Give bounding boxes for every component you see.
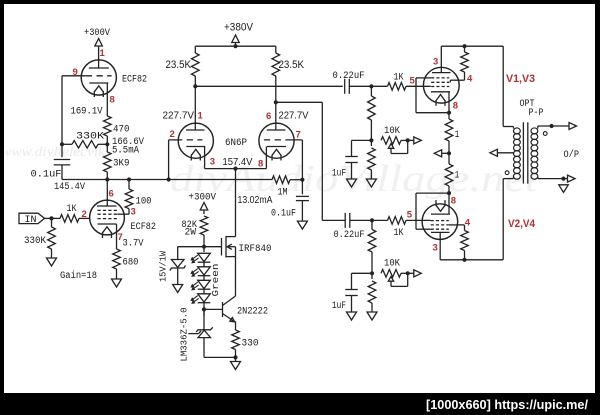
phase dot secondary	[543, 132, 547, 136]
node grid return	[300, 178, 304, 182]
wire 330K left	[60, 142, 72, 146]
label 1K (lower grid)	[394, 228, 404, 239]
capacitor 0.1uF (bias)	[296, 180, 309, 201]
svg-text:330K: 330K	[24, 236, 46, 247]
tube V1V3 grid g2	[431, 81, 449, 83]
resistor 23.5K right	[272, 53, 280, 76]
LED D2 green	[191, 267, 210, 277]
tube U1b plate	[97, 205, 117, 207]
wire base node to Q2 base	[204, 308, 223, 310]
svg-text:1K: 1K	[67, 204, 77, 215]
resistor lower bias lower	[368, 281, 376, 303]
wire g2 to screen resistor (lower)	[449, 225, 465, 231]
tube V2V4 grid g2	[431, 224, 449, 226]
power symbol +300V (CCS)	[200, 203, 208, 215]
label Gain=18	[60, 270, 97, 282]
ground (lower bias)	[367, 303, 377, 320]
pin 1 label (ECF82 triode plate)	[100, 48, 106, 59]
wire gate node left	[178, 246, 204, 248]
svg-text:3: 3	[131, 207, 136, 218]
wire cap to rail	[61, 165, 63, 180]
border frame	[0, 0, 600, 4]
wire cathodes to CCS drain	[235, 169, 237, 237]
svg-text:15V/1W: 15V/1W	[157, 251, 168, 282]
label 1M	[278, 188, 288, 199]
transformer T1 core	[523, 122, 527, 183]
svg-text:[1000x660] https://upic.me/: [1000x660] https://upic.me/	[426, 397, 588, 412]
label 3.7V	[123, 239, 144, 250]
svg-text:1K: 1K	[394, 228, 404, 239]
wire cathode pin3	[205, 147, 236, 169]
node left plate	[193, 84, 197, 88]
node upper cathode	[447, 111, 451, 115]
wire node to 1ohm upper	[448, 113, 450, 119]
node lower grid divider	[370, 218, 374, 222]
resistor 330	[232, 330, 240, 350]
svg-text:Gain=18: Gain=18	[60, 270, 97, 282]
pin 6 label	[109, 189, 114, 200]
wire lower divider to node2	[371, 252, 373, 279]
pin 8 label (lower out)	[451, 196, 456, 207]
svg-text:V2,V4: V2,V4	[508, 218, 536, 230]
node lower cathode	[447, 191, 451, 195]
wire 1ohm to mid	[448, 141, 450, 164]
label IRF840	[239, 244, 272, 255]
tube V-drv-a plate	[186, 86, 205, 130]
label 470	[113, 125, 130, 136]
tube V1V3 cathode	[431, 92, 450, 106]
capacitor 1uF upper	[345, 157, 358, 163]
wire 23.5K right top	[275, 46, 277, 53]
wire +380V rail	[195, 45, 275, 47]
svg-text:2N2222: 2N2222	[237, 307, 268, 318]
phase dot primary	[505, 171, 509, 175]
wire LED3-LED4	[203, 289, 205, 294]
wire 330K right	[98, 143, 107, 145]
transistor Q2 2N2222	[223, 296, 236, 330]
wire lower bias left	[352, 273, 373, 289]
net arrow upper (balance)	[414, 137, 422, 144]
potentiometer 10K upper	[381, 137, 401, 145]
pin 7 label (6N6P)	[296, 130, 301, 141]
pin 3 label (lower out plate)	[433, 243, 438, 254]
svg-text:1: 1	[455, 130, 460, 141]
svg-text:0.1uF: 0.1uF	[31, 170, 62, 181]
label 1uF (lower)	[332, 301, 346, 312]
ground (1uF upper)	[347, 163, 357, 188]
resistor 1 ohm lower	[445, 164, 453, 186]
wire grid pin9 to left rail	[62, 76, 86, 157]
wire mid to arrow	[442, 152, 449, 154]
svg-text:8: 8	[110, 95, 115, 106]
tube U1a grid	[86, 75, 112, 77]
wire pot to arrow lower	[401, 272, 414, 274]
resistor 100 screen	[125, 189, 133, 209]
svg-text:5: 5	[407, 210, 413, 221]
wire g3 tie to cathode (lower)	[416, 193, 449, 229]
svg-text:330K: 330K	[76, 132, 104, 143]
tube V1V3 grid g3	[431, 77, 449, 79]
svg-text:3K9: 3K9	[113, 159, 130, 170]
resistor 1K upper grid	[388, 83, 407, 91]
svg-text:1: 1	[198, 111, 204, 122]
node cathode divider	[105, 142, 109, 146]
wire screen resistor to pin4	[450, 72, 464, 82]
label 330K (feedback)	[76, 132, 104, 143]
svg-text:3: 3	[433, 57, 438, 68]
label 5.5mA	[112, 146, 139, 157]
node common cathode	[233, 167, 237, 171]
pin 2 label (6N6P)	[170, 129, 175, 140]
watermark cursive diyaudioVillage.net	[170, 158, 540, 200]
tube U1b grid g1	[98, 218, 118, 220]
wire 82K to gate node	[203, 235, 205, 252]
label 6N6P	[225, 138, 247, 149]
label 10K (lower)	[384, 259, 400, 270]
svg-text:100: 100	[136, 197, 152, 208]
label 1K (grid stopper)	[67, 204, 77, 215]
svg-text:23.5K: 23.5K	[279, 59, 305, 71]
label P-P	[529, 108, 544, 119]
label 1K (upper grid)	[394, 73, 404, 84]
wire 23.5K left bottom	[194, 76, 196, 86]
svg-text:8: 8	[451, 196, 456, 207]
label 13.02mA	[238, 194, 273, 206]
wire OPT left bottom	[503, 179, 513, 260]
pin 8 label (upper out)	[453, 101, 458, 112]
wire secondary bottom	[538, 178, 568, 180]
wire 1M to node	[290, 179, 302, 181]
wire cap to grid node	[349, 85, 387, 87]
tube U1a ECF82 triode envelope	[81, 60, 116, 95]
tube U1b grid g2	[98, 213, 118, 215]
tube U1a plate	[89, 67, 109, 69]
node lower bias	[370, 271, 374, 275]
wire LED1-LED2	[203, 262, 205, 267]
pin 6 label (6N6P)	[266, 111, 271, 122]
resistor 1K lower grid	[388, 217, 407, 225]
resistor upper screen	[461, 52, 469, 72]
svg-text:3: 3	[210, 157, 215, 168]
resistor upper bias lower	[368, 148, 376, 170]
capacitor 1uF lower	[345, 290, 358, 296]
net arrow O/P+	[569, 123, 577, 130]
label V2,V4	[508, 218, 536, 230]
label 330	[242, 339, 259, 350]
svg-text:4: 4	[465, 218, 471, 229]
label 2N2222	[237, 307, 268, 318]
svg-text:227.7V: 227.7V	[163, 110, 195, 122]
node right plate	[274, 100, 278, 104]
label 166.6V	[112, 137, 144, 148]
tube V1V3 plate	[432, 46, 451, 72]
net arrow center tap	[490, 149, 498, 156]
wire cathode pin8	[236, 147, 267, 169]
svg-text:1: 1	[100, 48, 106, 59]
svg-text:3.7V: 3.7V	[123, 239, 144, 250]
tube U1b ECF82 pentode envelope	[90, 200, 125, 235]
LED D3 green	[191, 280, 210, 290]
connector IN	[19, 213, 45, 226]
resistor 330K feedback	[72, 141, 98, 149]
node upper bias	[369, 138, 373, 142]
wire g3 tie to cathode (upper)	[416, 78, 449, 113]
svg-text:IRF840: IRF840	[239, 244, 272, 255]
wire rail to 1M	[0, 0, 1, 1]
resistor lower screen	[461, 231, 469, 251]
svg-text:O/P: O/P	[564, 149, 580, 161]
wire plate node to coupling cap	[195, 85, 342, 87]
power +380V label	[224, 22, 254, 34]
resistor 330K input	[48, 227, 56, 249]
svg-text:169.1V: 169.1V	[71, 107, 103, 118]
svg-text:ECF82: ECF82	[122, 75, 147, 86]
svg-text:+300V: +300V	[189, 193, 217, 204]
wire 100 to rail	[127, 177, 131, 189]
net arrow O/P-	[568, 175, 576, 182]
svg-text:2: 2	[170, 129, 175, 140]
ground (upper bias)	[366, 170, 376, 187]
wire source down	[235, 257, 237, 296]
wire bias node left	[352, 140, 372, 156]
svg-text:330: 330	[242, 339, 259, 350]
pot wiper upper	[388, 140, 407, 153]
watermark www text	[1, 145, 109, 160]
wire OPT center tap	[497, 152, 513, 154]
pin 5 label (upper out)	[410, 76, 416, 87]
wire grid pin2 to rail	[167, 140, 177, 182]
label 3K9	[113, 159, 130, 170]
zener D5 15V/1W	[170, 247, 186, 271]
wire divider to node2	[370, 120, 372, 146]
wire secondary top	[538, 125, 569, 127]
tube V-drv-a grid	[176, 139, 202, 141]
svg-text:ECF82: ECF82	[131, 222, 157, 233]
node base	[202, 307, 206, 311]
svg-text:8: 8	[453, 101, 458, 112]
node ccs bottom	[233, 355, 237, 359]
pin 1 label (6N6P)	[198, 111, 204, 122]
label O/P	[564, 149, 580, 161]
svg-text:2: 2	[82, 209, 87, 220]
svg-text:1uF: 1uF	[332, 301, 346, 312]
svg-text:+380V: +380V	[224, 22, 254, 34]
svg-text:227.7V: 227.7V	[279, 110, 309, 122]
ground (1uF lower)	[347, 296, 357, 321]
power +300V label (CCS)	[189, 193, 217, 204]
wire 23.5K right bottom	[275, 76, 277, 102]
wire LED2-LED3	[203, 276, 205, 281]
label 1 (lower)	[455, 170, 460, 181]
pin 3 label (upper out plate)	[433, 57, 438, 68]
tube V-drv-b grid	[264, 139, 286, 141]
svg-text:2W: 2W	[185, 228, 197, 239]
resistor 1 ohm upper	[445, 119, 453, 141]
node secondary top	[550, 124, 554, 128]
svg-text:V1,V3: V1,V3	[506, 73, 535, 85]
svg-text:+300V: +300V	[84, 28, 110, 39]
label 145.4V	[54, 182, 85, 193]
wire lower node to divider	[371, 220, 373, 229]
mosfet Q1 IRF840	[222, 236, 236, 258]
wire plate line to OPT	[441, 45, 503, 47]
label ECF82 (U1a)	[122, 75, 147, 86]
label 157.4V	[223, 156, 253, 168]
wire LM336 to bottom rail	[204, 338, 236, 358]
pin 9 label	[73, 67, 78, 78]
tube V-drv-a 6N6P envelope	[178, 123, 213, 158]
svg-text:1: 1	[455, 170, 460, 181]
capacitor 0.1uF (input hp)	[54, 160, 71, 165]
wire g2 to screen resistor	[117, 209, 129, 215]
wire cathode pin8 (lower out)	[448, 193, 450, 214]
tube V2V4 cathode	[431, 200, 450, 214]
svg-text:0.22uF: 0.22uF	[334, 230, 365, 241]
pin 3 label (6N6P)	[210, 157, 215, 168]
wire 330 to bottom rail	[235, 350, 237, 362]
svg-text:LM336Z-5.0: LM336Z-5.0	[179, 307, 190, 361]
svg-text:www.diyltelecvik,: www.diyltelecvik,	[1, 145, 109, 160]
svg-text:470: 470	[113, 125, 130, 136]
label 0.1uF (bias)	[271, 209, 296, 220]
wire grid pin7 right	[286, 140, 302, 180]
tube V1V3 envelope	[423, 67, 459, 103]
svg-text:IN: IN	[25, 215, 37, 226]
LED D1 green	[191, 253, 210, 263]
svg-text:1M: 1M	[278, 188, 288, 199]
svg-text:P-P: P-P	[529, 108, 544, 119]
resistor 470	[104, 116, 112, 136]
resistor 1M	[272, 176, 290, 184]
ground (secondary)	[559, 185, 569, 193]
label Green	[210, 264, 221, 297]
resistor 3K9	[104, 152, 112, 172]
svg-text:1K: 1K	[394, 73, 404, 84]
tube V2V4 envelope	[422, 204, 458, 240]
wire LED4 to base node	[203, 303, 205, 316]
wire plate pin6 to rail	[105, 177, 109, 206]
wire lower cap right	[350, 219, 388, 221]
svg-text:7: 7	[296, 130, 301, 141]
node pot out lower	[406, 271, 410, 275]
svg-text:4: 4	[467, 74, 473, 85]
tube V-drv-b 6N6P envelope	[259, 123, 294, 158]
potentiometer 10K lower	[381, 270, 401, 278]
reference U3 LM336Z-5.0	[188, 309, 213, 337]
svg-text:10K: 10K	[384, 259, 400, 270]
label LM336Z-5.0	[179, 307, 190, 361]
svg-text:3: 3	[433, 243, 438, 254]
svg-text:10K: 10K	[384, 126, 400, 137]
label 82K	[182, 220, 198, 231]
pin 4 label (lower out)	[465, 218, 471, 229]
svg-text:13.02mA: 13.02mA	[238, 194, 273, 206]
LED D4 green	[191, 294, 210, 304]
ground (bias cap)	[297, 201, 307, 230]
svg-text:145.4V: 145.4V	[54, 182, 85, 193]
transformer T1 secondary winding	[531, 126, 538, 179]
svg-text:5.5mA: 5.5mA	[112, 146, 139, 157]
tube U1b grid g3	[98, 209, 118, 211]
wire IN to 1K	[45, 216, 61, 220]
wire 23.5K left top	[194, 46, 196, 53]
capacitor 0.22uF upper	[345, 79, 350, 94]
svg-text:23.5K: 23.5K	[166, 59, 192, 71]
pin 3 label (screen)	[131, 207, 136, 218]
ground (CCS)	[231, 362, 241, 370]
node pot out upper	[406, 138, 410, 142]
tube V2V4 grid g3	[431, 228, 449, 230]
tube V2V4 plate	[431, 232, 450, 259]
svg-text:680: 680	[123, 258, 139, 269]
wire screen resistor top	[464, 46, 466, 52]
svg-text:6: 6	[266, 111, 271, 122]
label 15V/1W	[157, 251, 168, 282]
resistor 23.5K left	[192, 53, 200, 76]
wire 1K to pin5	[406, 85, 431, 87]
wire screen to plate line	[464, 251, 466, 260]
label 1uF (upper)	[332, 169, 346, 180]
ground (330K)	[47, 249, 57, 266]
pin 5 label (lower out)	[407, 210, 413, 221]
tube V2V4 grid g1	[431, 220, 449, 222]
power symbol +380V	[232, 35, 240, 48]
ground (680)	[112, 269, 122, 287]
wire pot to arrow upper	[401, 139, 414, 141]
label 0.22uF (upper)	[333, 71, 365, 82]
tube V-drv-b cathode	[267, 147, 286, 161]
wire 3K9 to rail	[106, 172, 108, 180]
pin 4 label (upper out)	[467, 74, 473, 85]
wire 1K to pin5 lower	[406, 219, 431, 221]
svg-text:1uF: 1uF	[332, 169, 346, 180]
tube V-drv-a cathode	[186, 147, 205, 161]
resistor 1K grid stopper	[60, 215, 79, 223]
capacitor 0.22uF lower	[345, 213, 350, 228]
wire cathode pin8 (upper out)	[448, 92, 450, 113]
node secondary bottom	[561, 177, 565, 181]
node upper grid divider	[369, 84, 373, 88]
wire right plate branch	[276, 102, 323, 220]
label 2W	[185, 228, 197, 239]
wire lower cap left	[322, 219, 345, 221]
pin 8 label (6N6P)	[258, 159, 263, 170]
label 10K (upper)	[384, 126, 400, 137]
label 100	[136, 197, 152, 208]
power symbol +300V (first stage)	[95, 39, 103, 69]
svg-text:6N6P: 6N6P	[225, 138, 247, 149]
pin 2 label (pentode grid)	[82, 209, 87, 220]
label OPT	[520, 99, 535, 110]
pin 8 label	[110, 95, 115, 106]
ground (zener)	[173, 268, 183, 293]
svg-text:157.4V: 157.4V	[223, 156, 253, 168]
node lower screen	[462, 258, 466, 262]
resistor 680	[113, 249, 121, 269]
label 0.1uF	[31, 170, 62, 181]
net arrow sense (left)	[434, 150, 442, 157]
wire cathode pin8 down	[106, 83, 108, 116]
svg-text:5: 5	[410, 76, 416, 87]
resistor lower divider	[368, 230, 376, 253]
label 169.1V	[71, 107, 103, 118]
wire 470 to node	[106, 136, 108, 152]
power +300V label (first stage)	[84, 28, 110, 39]
label 23.5K (left)	[166, 59, 192, 71]
node upper screen	[462, 44, 466, 48]
label ECF82 (U1b)	[131, 222, 157, 233]
wire cathode pin7 to 680	[116, 224, 118, 249]
